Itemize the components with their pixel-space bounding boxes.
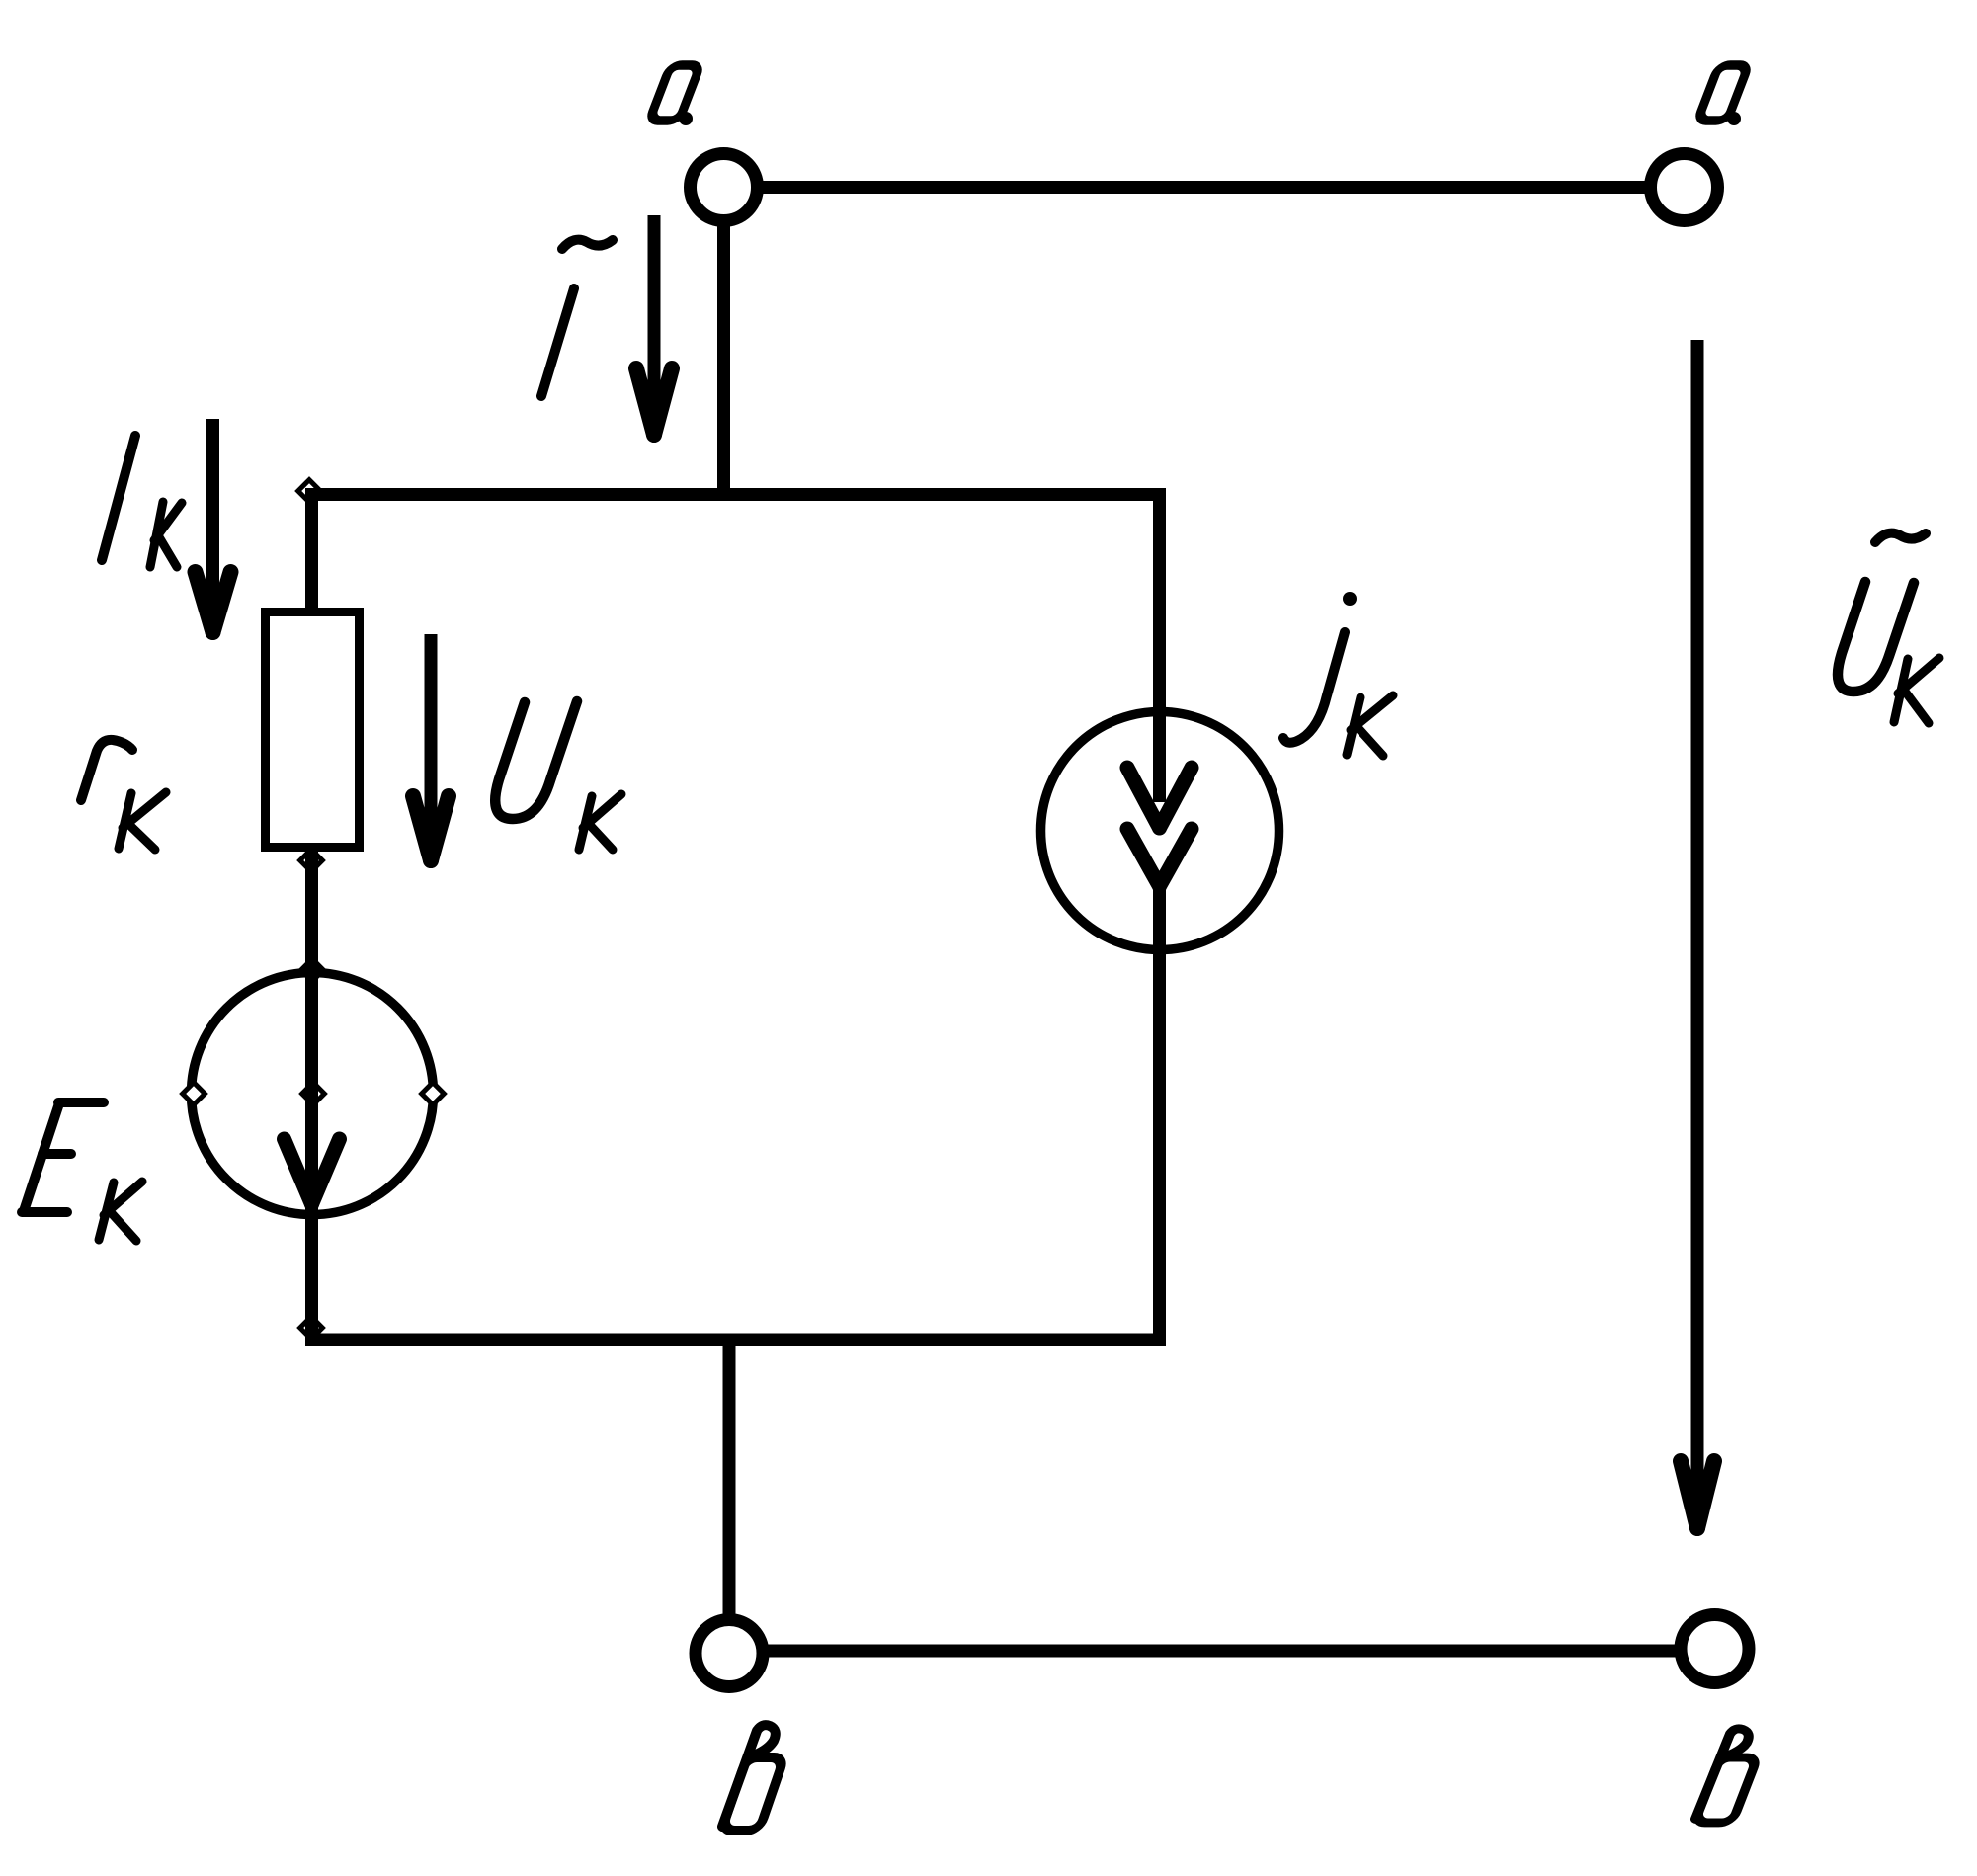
current source j_K (circle): [1041, 712, 1279, 950]
resistor r_K: [266, 612, 360, 848]
junction diamond (bottom-left corner of inner loop): [300, 1317, 323, 1340]
junction diamond (EMF center): [302, 1083, 325, 1105]
junction diamond (below resistor): [300, 850, 323, 872]
wire inner bottom horizontal: [305, 1334, 1166, 1346]
voltage arrow U_K (inner): [413, 634, 449, 860]
node label a (top-right): [1697, 65, 1748, 125]
node label b (bottom-right): [1694, 1729, 1757, 1823]
wire stub bottom node to terminal b: [723, 1340, 736, 1615]
junction diamond (EMF left quadrant): [183, 1083, 206, 1105]
label U_K (inner): [495, 701, 621, 850]
terminal a (top-right): [1651, 154, 1718, 221]
label r_K: [81, 740, 166, 850]
wire right branch: current source down to bottom wire: [1153, 886, 1166, 1340]
wire resistor to EMF source and through it: [305, 852, 318, 1346]
EMF source E_K (circle): [192, 973, 434, 1215]
terminal a (top-left): [691, 154, 758, 221]
current source chevron 1: [1127, 768, 1192, 828]
junction diamond (EMF right quadrant): [422, 1083, 445, 1105]
wire left branch: corner down to resistor: [305, 488, 318, 612]
label j_K: [1283, 592, 1393, 756]
label I_K: [102, 436, 182, 567]
label U_K (outer, with tilde): [1838, 533, 1939, 723]
terminal b (bottom-right): [1681, 1615, 1749, 1683]
current arrow I (tilde): [636, 215, 672, 435]
label E_K: [22, 1102, 142, 1241]
voltage arrow U_K (outer, right side): [1681, 340, 1714, 1528]
label I (tilde): [541, 240, 613, 396]
node label a (top-left): [649, 65, 700, 125]
node label b (bottom-left): [721, 1725, 783, 1831]
wire top (a-left to a-right): [763, 181, 1645, 194]
current arrow I_K: [196, 419, 231, 632]
current source chevron 2: [1127, 829, 1192, 886]
wire bottom (b-left to b-right): [768, 1645, 1676, 1658]
junction diamond (EMF circle top): [301, 959, 324, 982]
junction diamond (top-left corner of inner loop): [298, 480, 321, 503]
wire right branch: top corner down into current source: [1153, 488, 1166, 802]
terminal b (bottom-left): [696, 1620, 763, 1687]
wire inner top horizontal: [305, 488, 1166, 501]
wire stub from terminal a down to inner node: [717, 224, 730, 501]
EMF arrow (inside E_K): [285, 1139, 340, 1204]
